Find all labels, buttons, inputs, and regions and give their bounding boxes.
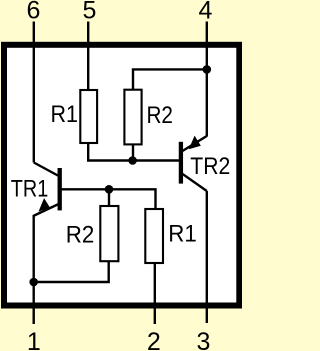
svg-text:3: 3 <box>197 328 211 351</box>
svg-text:5: 5 <box>83 0 97 25</box>
transistor TR1 emitter arrowhead <box>40 200 49 210</box>
svg-text:R2: R2 <box>146 102 173 129</box>
pin 3 lead wire <box>206 191 208 323</box>
resistor R1 (bottom) body <box>145 209 163 263</box>
wire: top horizontal net (pin4 to R2 top) <box>133 69 207 91</box>
pin 1 lead wire <box>33 282 35 324</box>
junction dot: TR1 base / R2 bottom top <box>105 185 114 194</box>
wire: R2 top bottom lead <box>132 144 134 160</box>
resistor R2 (top) body <box>124 90 141 145</box>
svg-text:2: 2 <box>147 328 161 351</box>
svg-text:4: 4 <box>199 0 213 25</box>
wire: TR1 base lead to R1 bottom <box>61 189 156 209</box>
svg-text:R2: R2 <box>66 221 95 248</box>
junction dot: emitter / pin1 net <box>29 278 38 287</box>
svg-text:6: 6 <box>26 0 40 25</box>
pin 4 lead wire <box>206 22 208 137</box>
wire: TR2 collector diagonal <box>181 173 207 191</box>
wire: node to R2 bottom top lead <box>108 189 110 206</box>
junction dot: node B (R1/R2 bottoms to TR2 base) <box>128 156 137 165</box>
pin 6 lead wire <box>33 22 35 163</box>
resistor R2 (bottom) body <box>100 206 118 261</box>
svg-text:1: 1 <box>27 328 41 351</box>
wire: TR1 collector diagonal <box>34 163 60 177</box>
svg-text:R1: R1 <box>50 101 78 128</box>
wire: R2 bottom lead to emitter net <box>34 261 109 282</box>
pin 5 lead wire <box>87 22 89 92</box>
svg-text:R1: R1 <box>168 220 197 247</box>
transistor TR1 base bar <box>58 168 62 210</box>
wire: TR2 emitter diagonal <box>181 136 207 152</box>
svg-text:TR2: TR2 <box>190 153 230 180</box>
transistor TR2 base bar <box>179 142 183 184</box>
IC package outline box <box>4 45 239 306</box>
junction dot: pin4 / R2 top net <box>203 65 212 74</box>
wire: R1 top bottom lead down to node B <box>88 143 181 161</box>
transistor TR2 emitter arrowhead <box>190 137 199 148</box>
transistor TR1 emitter wire <box>34 204 60 283</box>
pin 2 lead wire <box>154 263 156 324</box>
resistor R1 (top) body <box>80 90 97 143</box>
svg-text:TR1: TR1 <box>11 175 49 202</box>
